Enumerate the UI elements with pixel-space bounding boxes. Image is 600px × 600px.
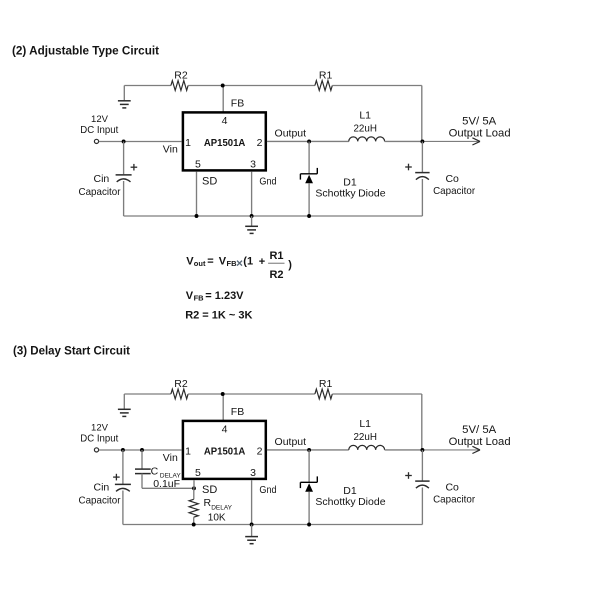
svg-text:): ) — [288, 259, 292, 271]
svg-text:Co: Co — [445, 482, 459, 494]
svg-text:0.1uF: 0.1uF — [153, 478, 180, 490]
svg-text:12V: 12V — [91, 423, 109, 434]
svg-text:Capacitor: Capacitor — [79, 494, 121, 506]
svg-text:(3) Delay Start Circuit: (3) Delay Start Circuit — [13, 344, 130, 358]
svg-text:SD: SD — [202, 175, 217, 187]
svg-text:3: 3 — [250, 159, 256, 171]
svg-text:Cin: Cin — [94, 481, 110, 493]
svg-text:FB: FB — [231, 406, 244, 418]
svg-text:out: out — [194, 259, 206, 268]
svg-text:(1: (1 — [243, 256, 253, 268]
svg-text:12V: 12V — [91, 114, 109, 125]
svg-text:Co: Co — [445, 173, 459, 185]
svg-text:R2 = 1K ~ 3K: R2 = 1K ~ 3K — [185, 310, 252, 322]
svg-text:Output: Output — [275, 436, 307, 448]
svg-text:Schottky: Schottky — [315, 496, 356, 508]
svg-text:FB: FB — [227, 259, 238, 268]
svg-text:+: + — [259, 256, 265, 268]
svg-text:C: C — [151, 465, 159, 477]
svg-text:Gnd: Gnd — [259, 175, 276, 187]
svg-text:DELAY: DELAY — [211, 505, 232, 512]
svg-text:AP1501A: AP1501A — [204, 138, 246, 149]
svg-text:2: 2 — [257, 137, 263, 149]
svg-text:Vin: Vin — [163, 143, 178, 155]
svg-text:FB: FB — [231, 98, 244, 110]
svg-text:Cin: Cin — [94, 173, 110, 185]
svg-text:(2) Adjustable Type Circuit: (2) Adjustable Type Circuit — [12, 44, 159, 58]
svg-text:R2: R2 — [269, 269, 283, 281]
svg-text:1: 1 — [185, 445, 191, 457]
svg-text:5V/ 5A: 5V/ 5A — [462, 424, 497, 436]
svg-text:Diode: Diode — [358, 188, 386, 200]
svg-text:Diode: Diode — [358, 496, 386, 508]
svg-text:Vin: Vin — [163, 452, 178, 464]
svg-text:R2: R2 — [174, 378, 188, 390]
svg-text:DC Input: DC Input — [80, 434, 118, 445]
svg-text:Gnd: Gnd — [259, 484, 276, 496]
svg-text:Capacitor: Capacitor — [433, 185, 475, 197]
svg-text:FB: FB — [194, 293, 205, 302]
svg-text:= 1.23V: = 1.23V — [205, 290, 244, 302]
svg-text:R2: R2 — [174, 69, 188, 81]
svg-text:Capacitor: Capacitor — [433, 494, 475, 506]
svg-text:SD: SD — [202, 484, 217, 496]
svg-text:Capacitor: Capacitor — [79, 186, 121, 198]
svg-text:R1: R1 — [319, 378, 333, 390]
svg-text:10K: 10K — [208, 512, 226, 523]
svg-text:4: 4 — [222, 424, 228, 436]
svg-text:L1: L1 — [359, 110, 371, 122]
svg-text:Output: Output — [275, 128, 307, 140]
svg-text:22uH: 22uH — [353, 123, 377, 134]
svg-text:5: 5 — [195, 467, 201, 479]
svg-text:3: 3 — [250, 467, 256, 479]
svg-text:Output Load: Output Load — [449, 128, 511, 140]
svg-text:L1: L1 — [359, 418, 371, 430]
svg-text:R1: R1 — [269, 250, 283, 262]
svg-text:Output Load: Output Load — [449, 436, 511, 448]
svg-text:2: 2 — [257, 445, 263, 457]
svg-text:Schottky: Schottky — [315, 188, 356, 200]
svg-text:DC Input: DC Input — [80, 125, 118, 136]
svg-text:1: 1 — [185, 137, 191, 149]
svg-text:=: = — [207, 256, 213, 268]
svg-text:22uH: 22uH — [353, 432, 377, 443]
svg-text:5: 5 — [195, 159, 201, 171]
svg-text:R1: R1 — [319, 69, 333, 81]
svg-text:4: 4 — [222, 115, 228, 127]
svg-text:AP1501A: AP1501A — [204, 446, 246, 457]
svg-text:V: V — [186, 290, 194, 302]
svg-text:5V/ 5A: 5V/ 5A — [462, 115, 497, 127]
